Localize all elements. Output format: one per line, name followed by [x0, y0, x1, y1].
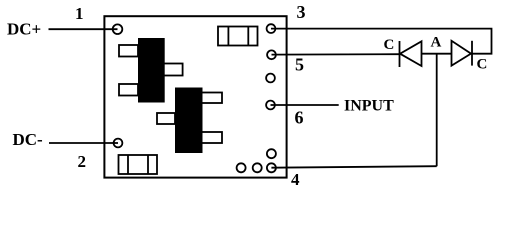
wire pin 5 to diode D1 cathode — [272, 53, 400, 55]
svg-text:DC-: DC- — [13, 130, 44, 149]
resistor R2 end cap left — [127, 155, 129, 174]
resistor R1 outline — [218, 27, 258, 46]
transistor Q1 pad left top — [119, 45, 138, 57]
diode D2 cathode bar — [471, 41, 473, 66]
transistor Q1 pad right — [160, 64, 183, 76]
transistor Q1 pad left bottom — [119, 84, 138, 96]
svg-text:A: A — [431, 35, 442, 51]
wire pin 4 to node A drop — [271, 166, 436, 168]
terminal pad 1 — [113, 24, 123, 34]
transistor Q2 body — [175, 88, 203, 154]
wire DC+ to pin 1 — [49, 28, 118, 30]
transistor Q2 pad right top — [197, 93, 222, 104]
svg-text:C: C — [477, 56, 488, 72]
transistor Q2 pad left — [157, 113, 175, 124]
terminal pad 6 — [266, 101, 275, 110]
svg-text:1: 1 — [75, 4, 84, 23]
svg-text:3: 3 — [297, 2, 306, 22]
wire pin 3 to top right corner — [271, 29, 492, 54]
svg-text:5: 5 — [295, 55, 304, 75]
diode D1 triangle — [400, 41, 422, 66]
wire node A vertical — [436, 54, 438, 167]
module board outline U1 — [104, 16, 286, 177]
svg-text:DC+: DC+ — [7, 19, 41, 38]
terminal pad upper of bottom cluster — [267, 149, 276, 158]
resistor R1 end cap left — [227, 27, 229, 46]
svg-text:C: C — [384, 37, 395, 53]
diode D1 cathode bar — [399, 41, 401, 67]
terminal pad 2 — [114, 139, 123, 148]
terminal pad 5 — [267, 50, 276, 59]
wire pin 6 to INPUT — [271, 104, 339, 106]
transistor Q1 body — [138, 38, 165, 103]
wire DC- to pin 2 — [49, 142, 118, 144]
svg-text:4: 4 — [291, 170, 300, 189]
transistor Q2 pad right bottom — [197, 132, 222, 143]
terminal pad 4 — [267, 163, 276, 172]
svg-text:6: 6 — [295, 108, 304, 128]
resistor R2 outline — [119, 155, 158, 174]
resistor R1 end cap right — [247, 27, 249, 46]
resistor R2 end cap right — [147, 155, 149, 174]
svg-text:INPUT: INPUT — [344, 98, 394, 115]
wire D1 anode to D2 anode node A — [422, 53, 452, 55]
svg-text:2: 2 — [78, 152, 87, 171]
terminal pad bottom row middle — [253, 163, 262, 172]
terminal pad 3 — [267, 24, 276, 33]
diode D2 triangle — [452, 41, 472, 66]
terminal pad bottom row left — [237, 163, 246, 172]
terminal pad unlabeled mid — [266, 74, 275, 83]
